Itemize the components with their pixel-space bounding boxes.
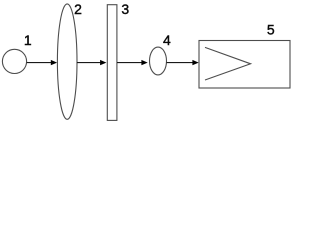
label 4	[163, 32, 171, 48]
label 2	[74, 1, 82, 17]
amplifier box 5	[199, 41, 290, 89]
arrowhead at ellipse4	[141, 60, 147, 65]
chevron inside box 5	[205, 47, 251, 80]
circle 1 (source)	[2, 49, 26, 73]
wire ellipse4 to box5	[167, 62, 194, 64]
arrowhead at box5	[192, 60, 198, 65]
svg-text:1: 1	[24, 32, 32, 48]
arrowhead at plate3	[100, 60, 106, 65]
wire circle1 to lens2	[27, 62, 52, 64]
ellipse 4	[150, 47, 167, 75]
wire lens2 to plate3	[77, 62, 101, 64]
svg-text:5: 5	[267, 22, 275, 38]
label 1	[24, 32, 32, 48]
svg-text:4: 4	[163, 32, 171, 48]
label 3	[121, 1, 129, 17]
svg-text:2: 2	[74, 1, 82, 17]
label 5	[267, 22, 275, 38]
arrowhead at lens2	[51, 60, 57, 65]
lens ellipse 2	[57, 4, 77, 119]
svg-text:3: 3	[121, 1, 129, 17]
plate rectangle 3	[107, 5, 117, 121]
wire plate3 to ellipse4	[117, 62, 142, 64]
